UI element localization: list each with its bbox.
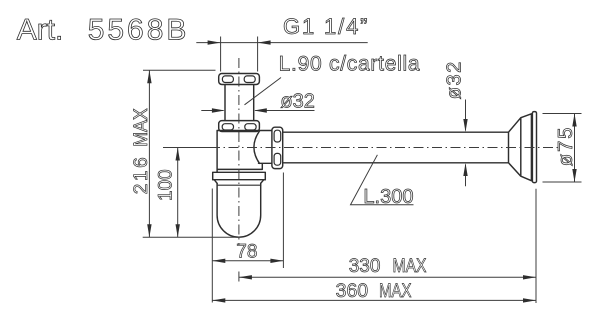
G1 dim extension lines bbox=[221, 37, 258, 72]
horizontal nut bbox=[272, 127, 283, 168]
lower nut bbox=[219, 121, 260, 132]
svg-text:MAX: MAX bbox=[393, 256, 427, 277]
330 arrow left bbox=[239, 275, 252, 279]
trap body outline bbox=[217, 131, 272, 173]
horizontal tube bbox=[283, 132, 509, 163]
lower nut hole left bbox=[222, 124, 233, 130]
cup top seam bbox=[217, 184, 261, 186]
78 extension left / 360 extension left bbox=[211, 189, 213, 303]
dia32 right dim line upper bbox=[465, 100, 467, 131]
G1 dim line bbox=[196, 42, 367, 44]
78 dim line bbox=[212, 260, 283, 262]
svg-text:Art.: Art. bbox=[17, 14, 64, 47]
216 MAX dim line bbox=[148, 70, 150, 237]
78 arrow right bbox=[270, 259, 283, 263]
G1 arrow left (points right) bbox=[208, 40, 221, 44]
L.300 leader bbox=[351, 155, 414, 205]
dia32 leader right bbox=[255, 110, 314, 112]
elbow inner arc bbox=[254, 131, 260, 163]
330 dim line bbox=[239, 276, 536, 278]
dia75 extension lines bbox=[543, 114, 582, 183]
cup body bbox=[217, 183, 261, 237]
360 arrow right bbox=[523, 298, 536, 302]
216 arrow up bbox=[147, 70, 151, 83]
collar band line bbox=[213, 179, 266, 181]
svg-text:MAX: MAX bbox=[131, 108, 152, 147]
horizontal nut hole bottom bbox=[274, 153, 281, 165]
svg-text:100: 100 bbox=[155, 169, 176, 201]
lower nut hole right bbox=[245, 124, 256, 130]
dia32 right arrow up bbox=[463, 163, 467, 176]
dia75 arrow down bbox=[572, 169, 576, 182]
svg-text:L.90 c/cartella: L.90 c/cartella bbox=[279, 53, 420, 76]
dia32 arrow pointing left at tube right wall bbox=[254, 108, 267, 112]
L.90 leader bbox=[245, 78, 282, 105]
inlet tube body bbox=[225, 85, 254, 121]
dia32 leader left bbox=[201, 110, 223, 112]
100 arrow down bbox=[176, 224, 180, 237]
top nut bbox=[219, 74, 260, 85]
216 arrow down bbox=[147, 224, 151, 237]
360 extension right bbox=[535, 189, 537, 303]
center line horizontal (tube axis) bbox=[210, 147, 560, 149]
wall flange cone bbox=[509, 114, 532, 181]
dia32 right arrow down bbox=[463, 119, 467, 132]
svg-text:MAX: MAX bbox=[379, 280, 412, 302]
100 dim line bbox=[177, 148, 179, 238]
top nut hole right bbox=[244, 76, 255, 83]
360 arrow left bbox=[212, 298, 225, 302]
svg-text:ø32: ø32 bbox=[444, 62, 466, 100]
svg-text:G1 1/4”: G1 1/4” bbox=[283, 14, 368, 39]
collar bbox=[213, 172, 266, 183]
svg-text:216: 216 bbox=[131, 157, 152, 194]
330 left tick bbox=[238, 272, 240, 282]
dia75 arrow up bbox=[572, 114, 576, 127]
78 extension right bbox=[282, 173, 284, 269]
svg-text:78: 78 bbox=[236, 241, 257, 262]
78 arrow left bbox=[212, 259, 225, 263]
100 arrow up bbox=[176, 148, 180, 161]
wall flange disc bbox=[532, 112, 536, 183]
216 MAX top extension line bbox=[143, 69, 216, 71]
svg-text:L.300: L.300 bbox=[363, 186, 413, 208]
top nut hole left bbox=[222, 76, 233, 83]
svg-text:5568B: 5568B bbox=[88, 14, 187, 47]
svg-text:ø75: ø75 bbox=[555, 128, 577, 167]
horizontal nut hole top bbox=[274, 130, 281, 142]
G1 arrow right (points left) bbox=[258, 40, 271, 44]
dia32 arrow pointing right at tube left wall bbox=[212, 108, 225, 112]
360 dim line bbox=[212, 299, 536, 301]
dia75 dim line bbox=[574, 114, 576, 183]
svg-text:330: 330 bbox=[349, 256, 381, 277]
svg-text:ø32: ø32 bbox=[280, 91, 314, 113]
330 arrow right bbox=[523, 275, 536, 279]
100 extension line bbox=[163, 147, 217, 149]
cup bottom extension line bbox=[143, 236, 239, 238]
center line vertical (trap axis) bbox=[238, 58, 240, 245]
svg-text:360: 360 bbox=[336, 280, 369, 302]
dia32 right dim line lower bbox=[465, 165, 467, 187]
